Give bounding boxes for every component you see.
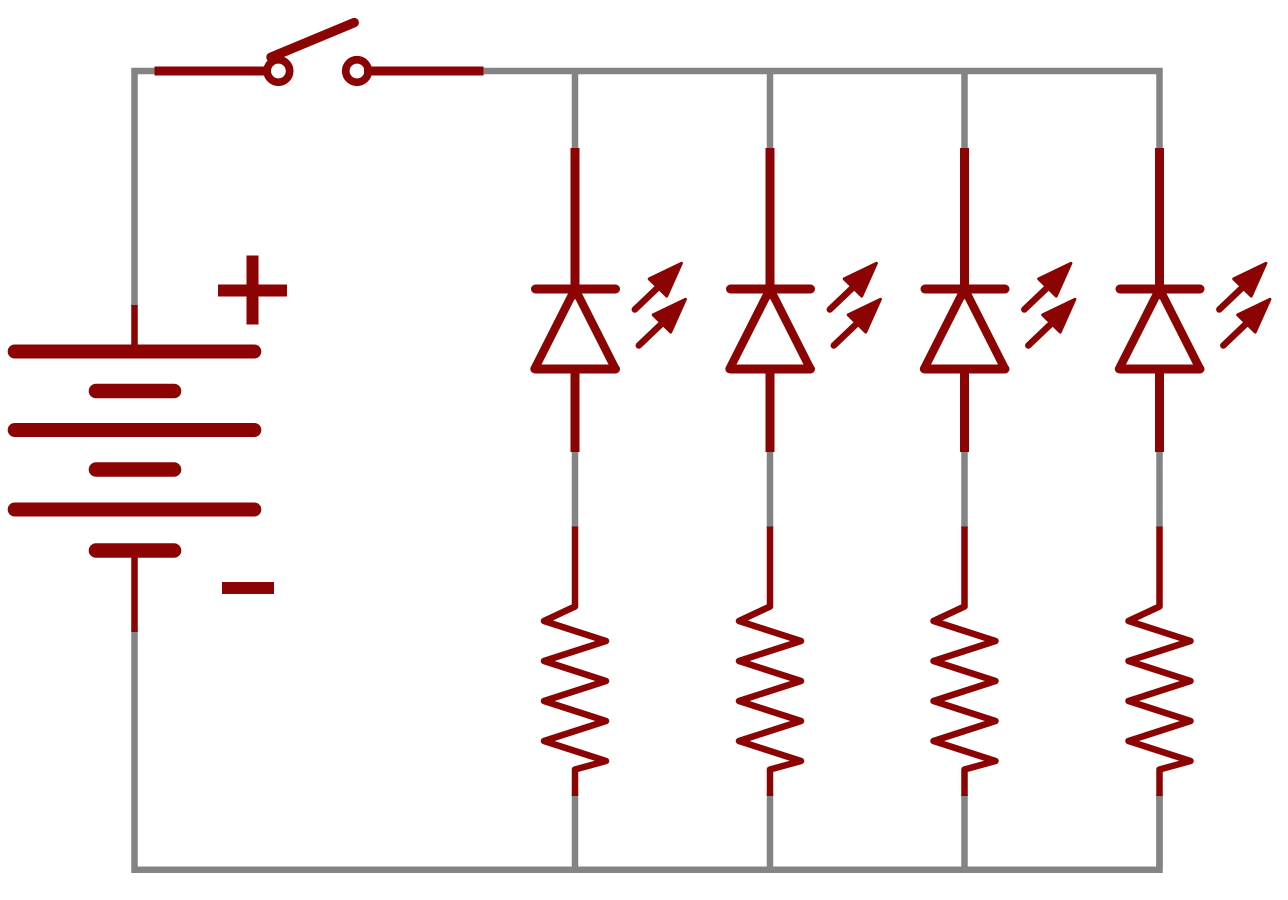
wire: LED D2 cathode to resistor R2 (gray) <box>767 450 774 528</box>
battery BT1 positive plate (cell 1 long) <box>15 345 255 359</box>
LED D4 cathode lead (bottom) <box>1155 369 1164 452</box>
wire: LED D3 cathode to resistor R3 (gray) <box>961 450 968 528</box>
battery BT1 negative plate (cell 1 short) <box>96 384 174 399</box>
wire: top bus from switch to top-right corner down to LED D4 (gray) <box>482 71 1160 150</box>
battery BT1 minus label <box>222 582 274 594</box>
battery BT1 negative terminal lead <box>131 556 138 632</box>
wire: top-left corner, battery + up and right to switch (gray) <box>135 71 159 307</box>
LED D3 light arrow 1 <box>1024 263 1071 309</box>
wire: top bus stub down to LED D2 (gray) <box>767 68 774 150</box>
LED D2 light arrow 2 <box>834 299 881 345</box>
resistor R1 <box>544 527 606 797</box>
LED D3 bottom bar <box>925 365 1005 374</box>
wire: top bus stub down to LED D1 (gray) <box>572 68 579 150</box>
resistor R2 <box>739 527 801 797</box>
wire: resistor R4 to bottom bus (gray) <box>1156 794 1163 868</box>
LED D1 anode lead (top) <box>571 148 580 299</box>
LED D3 anode lead (top) <box>960 148 969 299</box>
wire: resistor R1 to bottom bus (gray) <box>572 794 579 868</box>
battery BT1 negative plate (cell 3 short) <box>96 543 174 558</box>
LED D4 <box>1119 148 1270 452</box>
LED D3 light arrow 2 <box>1028 299 1075 345</box>
LED D1 <box>535 148 686 452</box>
LED D1 light arrow 1 <box>635 263 682 309</box>
wire: top bus stub down to LED D3 (gray) <box>961 68 968 150</box>
switch SW1 left pole circle <box>267 60 290 83</box>
resistor R2 zigzag body with leads <box>739 527 801 797</box>
LED D4 anode lead (top) <box>1155 148 1164 299</box>
LED D2 <box>730 148 881 452</box>
switch SW1 (SPST, open) <box>155 23 484 83</box>
LED D4 light arrow 2 <box>1223 299 1270 345</box>
resistor R3 zigzag body with leads <box>934 527 996 797</box>
wire: LED D1 cathode to resistor R1 (gray) <box>572 450 579 528</box>
resistor R4 <box>1129 527 1191 797</box>
LED D1 light arrow 2 <box>639 299 686 345</box>
LED D1 top bar <box>536 285 616 294</box>
battery BT1 positive plate (cell 2 long) <box>15 423 255 437</box>
LED D3 top bar <box>925 285 1005 294</box>
LED D4 bottom bar <box>1120 365 1200 374</box>
switch SW1 lever arm <box>271 23 354 58</box>
LED D1 cathode lead (bottom) <box>571 369 580 452</box>
LED D4 top bar <box>1120 285 1200 294</box>
resistor R1 zigzag body with leads <box>544 527 606 797</box>
battery BT1 plus label <box>218 256 287 325</box>
LED D2 light arrow 1 <box>830 263 877 309</box>
LED D2 triangle <box>730 289 811 369</box>
LED D4 triangle <box>1119 289 1200 369</box>
resistor R3 <box>934 527 996 797</box>
switch SW1 right lead <box>364 67 484 76</box>
battery BT1 positive plate (cell 3 long) <box>15 503 255 517</box>
LED D4 light arrow 1 <box>1219 263 1266 309</box>
LED D2 anode lead (top) <box>766 148 775 299</box>
wire: resistor R2 to bottom bus (gray) <box>767 794 774 868</box>
wire: bottom bus with left riser from battery - and right riser to R4 (gray) <box>135 629 1160 870</box>
LED D3 <box>924 148 1075 452</box>
battery BT1 positive terminal lead <box>131 305 138 348</box>
LED D2 bottom bar <box>731 365 811 374</box>
battery BT1 negative plate (cell 2 short) <box>96 462 174 477</box>
switch SW1 left lead <box>155 67 273 76</box>
LED D1 triangle <box>535 289 616 369</box>
LED D1 bottom bar <box>536 365 616 374</box>
resistor R4 zigzag body with leads <box>1129 527 1191 797</box>
LED D3 cathode lead (bottom) <box>960 369 969 452</box>
LED D2 top bar <box>731 285 811 294</box>
LED D3 triangle <box>924 289 1005 369</box>
switch SW1 right pole circle <box>346 60 369 83</box>
battery BT1 <box>15 256 287 633</box>
wire: resistor R3 to bottom bus (gray) <box>961 794 968 868</box>
wire: LED D4 cathode to resistor R4 (gray) <box>1156 450 1163 528</box>
LED D2 cathode lead (bottom) <box>766 369 775 452</box>
